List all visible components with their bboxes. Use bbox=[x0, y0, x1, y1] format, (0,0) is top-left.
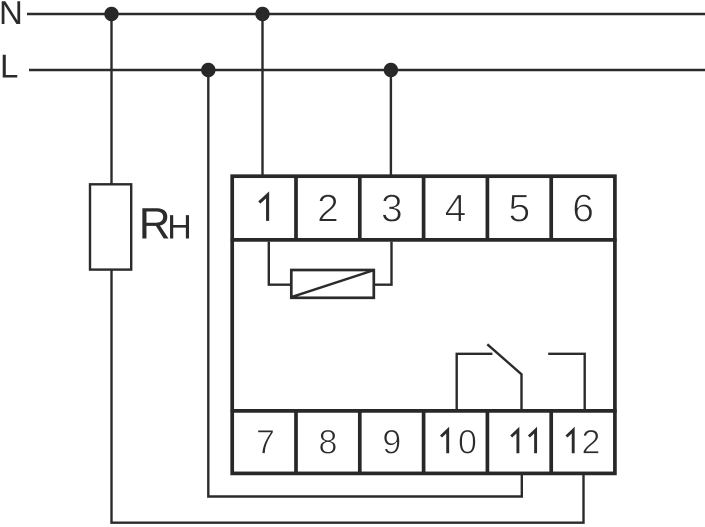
pin label 1 bbox=[259, 195, 267, 221]
wire N line to resistor Rн top bbox=[110, 14, 112, 185]
svg-text:R: R bbox=[139, 200, 171, 249]
top terminal strip bottom border bbox=[230, 238, 616, 242]
junction dot on N line above resistor bbox=[104, 7, 118, 21]
svg-text:0: 0 bbox=[458, 424, 477, 462]
wire L bus line bbox=[29, 69, 705, 71]
junction dot on L line above terminal 3 bbox=[384, 63, 398, 77]
svg-text:N: N bbox=[0, 0, 23, 31]
pin label 10 bbox=[441, 430, 448, 453]
svg-text:5: 5 bbox=[508, 188, 530, 231]
svg-text:4: 4 bbox=[445, 188, 467, 231]
wire coil right to terminal 3 bbox=[374, 242, 392, 285]
contact fixed side from terminal 10 bbox=[457, 354, 493, 410]
relay module box outline bbox=[232, 176, 615, 473]
resistor Rн (load) bbox=[90, 184, 131, 269]
junction dot on L line at return branch bbox=[201, 63, 215, 77]
wire terminal 1 down to coil left bbox=[269, 242, 291, 285]
svg-text:Н: Н bbox=[167, 209, 192, 247]
terminal divider top row 3|4 bbox=[422, 176, 426, 240]
terminal divider bottom row 7|8 bbox=[294, 411, 298, 474]
terminal divider top row 2|3 bbox=[358, 176, 362, 240]
svg-text:9: 9 bbox=[382, 424, 401, 462]
terminal divider top row 4|5 bbox=[486, 176, 490, 240]
terminal divider bottom row 11|12 bbox=[549, 411, 553, 474]
svg-text:2: 2 bbox=[317, 188, 339, 231]
terminal divider bottom row 8|9 bbox=[358, 411, 362, 474]
wire L line down to terminal 3 bbox=[390, 70, 392, 177]
pin label 11 bbox=[511, 430, 518, 453]
wire N line down to terminal 1 bbox=[261, 14, 263, 177]
terminal divider bottom row 9|10 bbox=[422, 411, 426, 474]
bottom terminal strip top border bbox=[230, 409, 616, 413]
relay coil (rectangle with diagonal) bbox=[291, 270, 374, 298]
terminal divider bottom row 10|11 bbox=[486, 411, 490, 474]
svg-text:3: 3 bbox=[381, 188, 403, 231]
wire N bus line bbox=[27, 13, 705, 15]
coil diagonal stroke bbox=[292, 271, 373, 297]
svg-text:6: 6 bbox=[572, 188, 594, 231]
junction dot on N line above terminal 1 bbox=[255, 7, 269, 21]
svg-text:7: 7 bbox=[256, 424, 275, 462]
pin label 12 bbox=[567, 430, 574, 453]
terminal divider top row 5|6 bbox=[549, 176, 553, 240]
contact lever to terminal 11 bbox=[487, 344, 521, 409]
terminal divider top row 1|2 bbox=[294, 176, 298, 240]
contact open side from terminal 12 bbox=[548, 354, 585, 410]
wire L line down, across, up to terminal 11 bbox=[208, 70, 522, 497]
svg-text:8: 8 bbox=[319, 424, 338, 462]
svg-text:2: 2 bbox=[582, 424, 601, 462]
svg-text:L: L bbox=[0, 48, 18, 85]
wire resistor bottom down, across bottom, up to terminal 12 bbox=[112, 270, 584, 523]
